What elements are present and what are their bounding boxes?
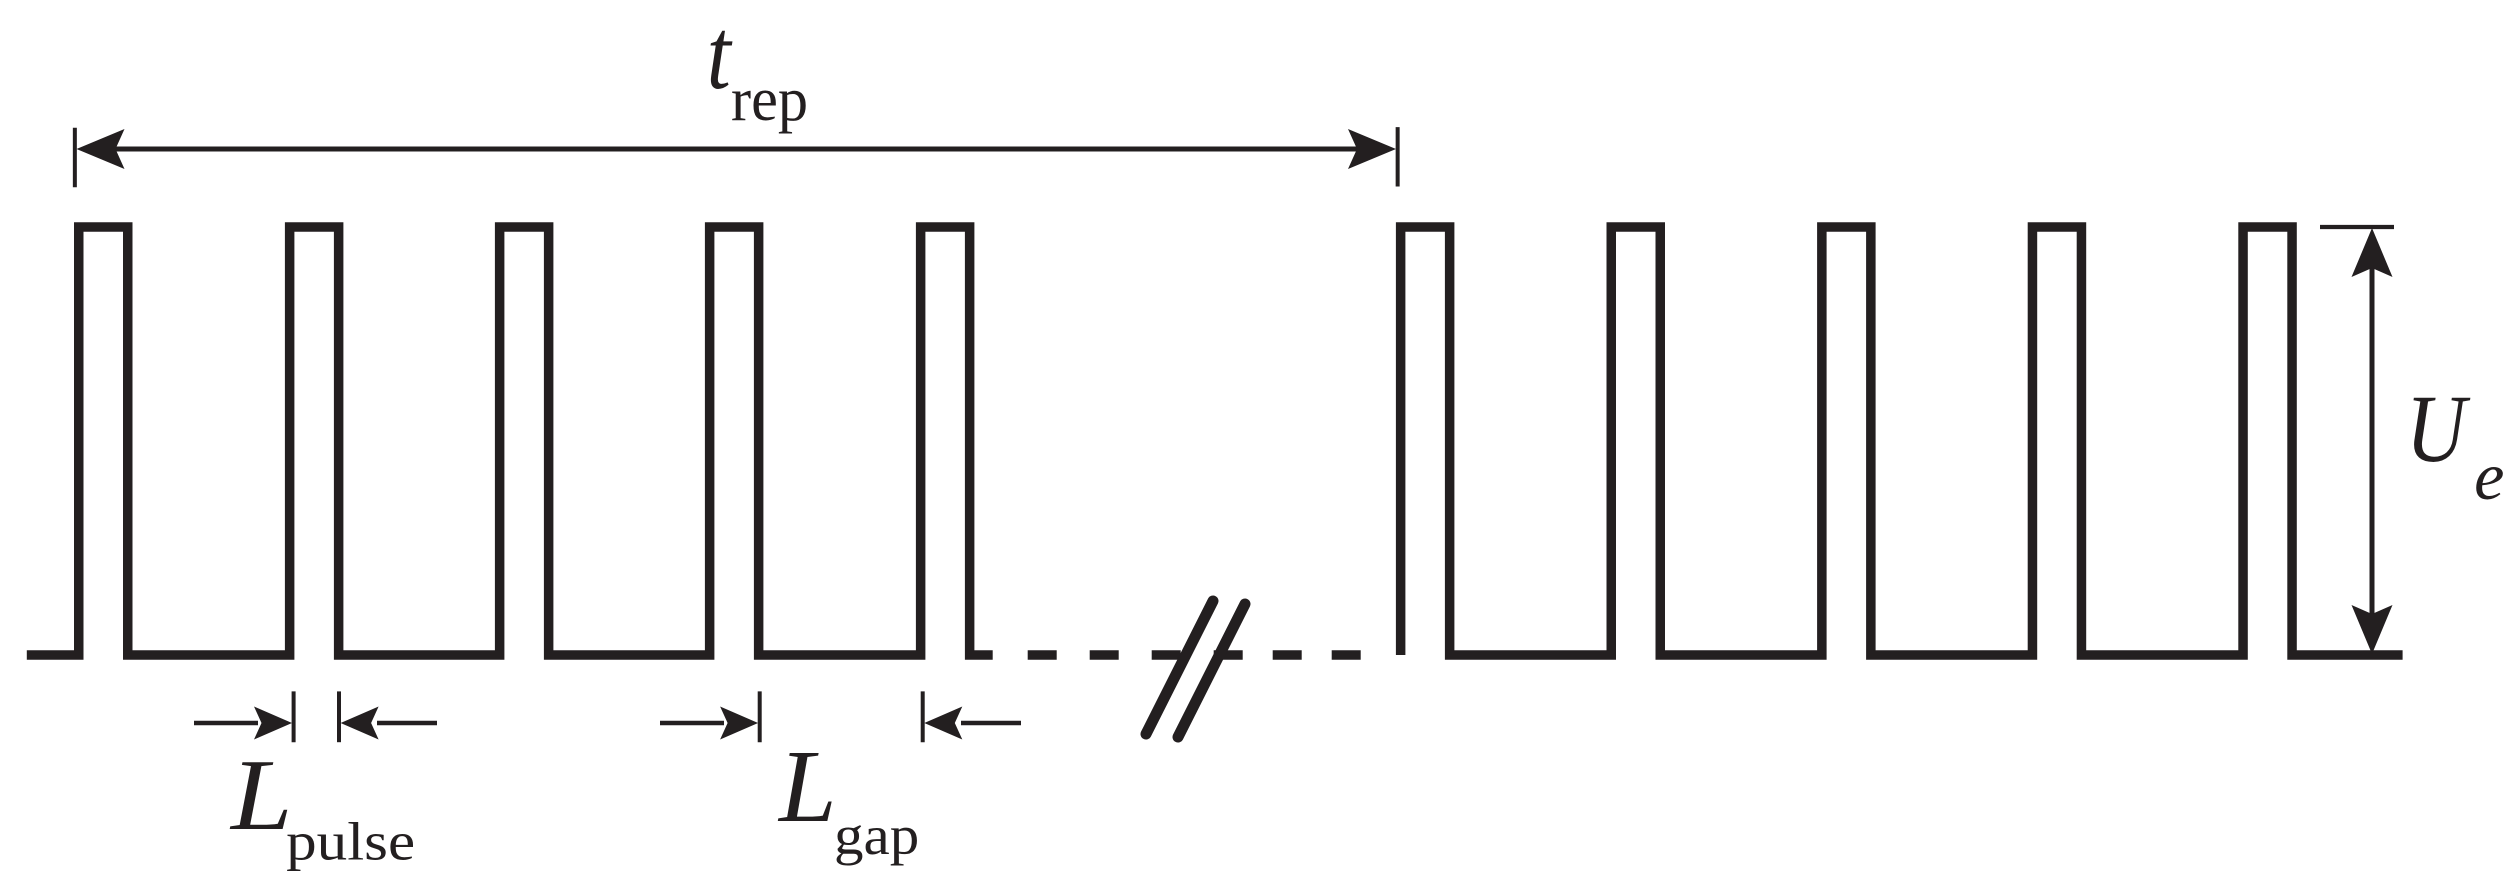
svg-text:L: L <box>777 730 837 844</box>
svg-text:t: t <box>707 0 733 110</box>
svg-text:rep: rep <box>731 66 808 134</box>
svg-text:gap: gap <box>834 805 919 866</box>
svg-text:L: L <box>229 738 293 851</box>
svg-text:U: U <box>2406 375 2471 482</box>
svg-text:e: e <box>2474 438 2504 514</box>
svg-text:pulse: pulse <box>286 811 415 871</box>
